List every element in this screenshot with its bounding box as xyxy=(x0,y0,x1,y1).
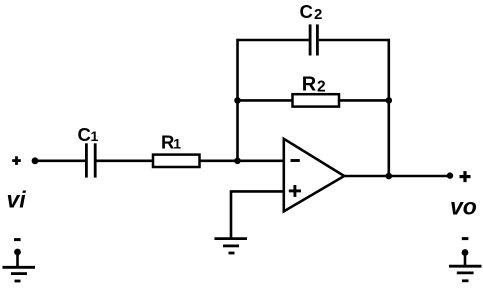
resistor R1 xyxy=(153,155,200,167)
node: junction dot at output xyxy=(386,173,393,180)
wire: output ground stem xyxy=(464,253,467,267)
input terminal + polarity mark (vi top) xyxy=(12,156,21,165)
svg-text:2: 2 xyxy=(317,79,326,96)
wire: junction to R2 xyxy=(238,99,293,102)
ground (input) xyxy=(3,267,36,281)
input terminal - polarity mark (vi bottom) xyxy=(14,238,21,241)
svg-text:vi: vi xyxy=(7,187,27,213)
wire: C1 to R1 xyxy=(95,160,153,163)
resistor R2 xyxy=(293,94,340,106)
label R1 xyxy=(161,131,181,152)
wire: R1 to op-amp inverting input xyxy=(200,160,285,163)
label R2 xyxy=(302,74,326,96)
svg-text:R: R xyxy=(302,74,317,96)
capacitor C1 xyxy=(86,143,95,177)
wire: left vertical feedback branch xyxy=(236,39,239,161)
wire: op-amp output to output terminal xyxy=(344,175,450,178)
label C2 xyxy=(300,1,323,23)
svg-text:vo: vo xyxy=(450,194,477,220)
svg-text:1: 1 xyxy=(173,136,181,152)
op-amp inverting input symbol (-) xyxy=(291,159,300,162)
svg-text:C: C xyxy=(78,124,91,145)
wire: input ground stem xyxy=(16,252,19,267)
wire: input terminal to C1 xyxy=(35,160,86,163)
node: output terminal dot xyxy=(447,172,453,178)
node: junction dot at inverting input xyxy=(234,158,241,165)
node: junction dot at R2 right xyxy=(386,97,393,104)
svg-text:C: C xyxy=(300,1,313,22)
op-amp non-inverting input symbol (+) xyxy=(289,185,301,197)
capacitor C2 xyxy=(310,24,317,55)
label C1 xyxy=(78,124,99,145)
svg-text:2: 2 xyxy=(314,6,322,23)
ground (output) xyxy=(449,266,482,281)
node: input terminal dot xyxy=(32,157,39,164)
wire: right vertical feedback branch xyxy=(387,39,390,176)
ground (op-amp non-inverting input) xyxy=(215,239,248,253)
wire: non-inverting input to ground xyxy=(231,191,285,238)
node: junction dot at R2 left xyxy=(234,97,241,104)
output terminal + polarity mark (vo top) xyxy=(460,171,471,182)
wire: C2 to top right corner xyxy=(319,39,389,42)
output terminal - polarity mark (vo bottom) xyxy=(462,237,469,240)
wire: R2 to right junction xyxy=(339,99,389,102)
op-amp U1 xyxy=(284,139,344,212)
node: input ground terminal dot xyxy=(14,249,21,256)
wire: top left segment to C2 xyxy=(238,39,309,42)
svg-text:1: 1 xyxy=(91,128,99,144)
node: output ground terminal dot xyxy=(462,249,469,256)
